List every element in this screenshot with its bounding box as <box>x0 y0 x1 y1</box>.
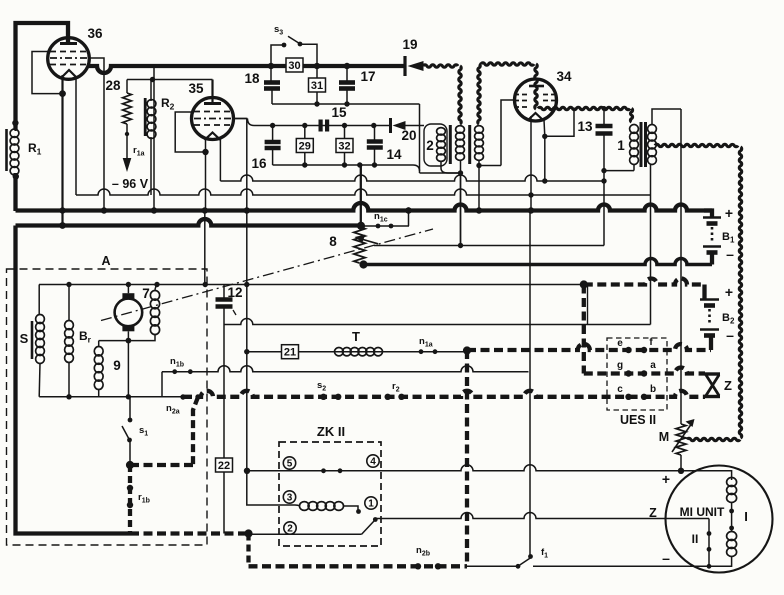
svg-text:–: – <box>662 550 670 566</box>
switch s1 <box>129 397 131 420</box>
contact n1b row <box>162 366 529 372</box>
wire vertical to ZK <box>246 119 248 471</box>
capacitor 16 <box>272 126 274 142</box>
inductor T <box>335 348 344 356</box>
svg-text:MI UNIT: MI UNIT <box>680 505 725 519</box>
svg-text:13: 13 <box>577 119 593 134</box>
wire cap13 to transformer1 primary <box>604 170 634 172</box>
svg-text:18: 18 <box>244 71 260 86</box>
wire vertical long to f1 <box>529 211 531 557</box>
tube 35 <box>211 80 213 104</box>
svg-text:29: 29 <box>299 141 311 153</box>
wire winding C bottom to bus1 <box>478 160 480 211</box>
capacitor 14 <box>374 126 376 141</box>
inductor S <box>38 285 40 316</box>
inductor Br <box>68 285 70 322</box>
wire thick dashed s2-r2 row <box>183 391 705 397</box>
wire tube34 grid left down <box>501 100 515 166</box>
wire thick left drop <box>16 226 131 534</box>
wavy lead M to right edge <box>687 438 740 440</box>
svg-text:12: 12 <box>227 285 242 300</box>
wire 31 with label <box>316 66 318 104</box>
capacitor 17 <box>346 66 348 82</box>
svg-text:4: 4 <box>370 457 376 468</box>
wire 32 with label <box>344 126 346 166</box>
wire tube36 aux drop <box>75 76 77 195</box>
svg-text:31: 31 <box>311 80 323 92</box>
wire tube34 cathode to bus1 <box>530 116 532 211</box>
svg-text:21: 21 <box>284 347 296 359</box>
wire row173 <box>420 172 461 174</box>
svg-text:1: 1 <box>368 499 374 510</box>
dashed enclosure A <box>7 269 208 545</box>
svg-text:+: + <box>662 471 670 487</box>
svg-text:22: 22 <box>218 460 230 472</box>
wire motor top rail <box>39 284 584 286</box>
wire tube36 grid right to bus1 <box>88 58 104 211</box>
wire tube36 cathode drop <box>61 75 63 226</box>
svg-text:35: 35 <box>188 81 204 96</box>
svg-text:Z: Z <box>649 506 657 520</box>
wire row T <box>247 351 467 353</box>
resistor 28 <box>126 80 128 94</box>
wavy lead tube34 out to transformer 1 <box>538 107 630 109</box>
svg-text:2: 2 <box>426 138 434 153</box>
wire vertical 22 <box>223 325 225 534</box>
capacitor 13 <box>602 106 607 111</box>
wire thick B1 return row <box>364 259 713 265</box>
wavy right edge vertical <box>739 147 741 438</box>
svg-text:14: 14 <box>386 147 402 162</box>
wavy lead 19 to transformer <box>423 65 458 67</box>
svg-text:–: – <box>726 327 734 343</box>
wire caps bottom row <box>272 103 420 105</box>
wire caps bottom row 2 <box>273 164 413 166</box>
svg-text:– 96 V: – 96 V <box>112 177 149 191</box>
wire thick dashed drop x467 <box>465 350 469 566</box>
svg-text:2: 2 <box>287 524 293 535</box>
capacitor 15 series <box>319 120 323 132</box>
wire bottom rail <box>39 396 183 398</box>
wire vertical cap row to bus2 <box>360 165 362 226</box>
wire caps top row <box>254 125 391 127</box>
wire minus row <box>467 565 518 567</box>
transformer 2 winding A <box>437 128 446 135</box>
label 30 boxed <box>286 58 303 72</box>
wire tube34 plate tap down <box>545 108 574 137</box>
wire thick bus 1 <box>16 203 713 211</box>
contact n2a <box>180 394 185 399</box>
relay coil 3-1 <box>283 491 295 503</box>
wire winding B drop to row245 <box>460 173 462 246</box>
svg-text:32: 32 <box>338 141 350 153</box>
electrode 20 <box>389 118 392 133</box>
svg-text:16: 16 <box>251 156 267 171</box>
electrode 19 <box>403 56 406 76</box>
svg-text:g: g <box>617 360 623 371</box>
svg-text:b: b <box>650 384 656 395</box>
wire thick dashed n2a drop <box>193 397 198 465</box>
resistor r1b dashed <box>128 465 132 534</box>
wire tube36 grid left <box>32 52 62 94</box>
transformer 2 core 1 <box>449 125 452 164</box>
contact n1c <box>361 225 409 227</box>
wire thick top-left corner <box>16 23 69 130</box>
rheostat M <box>676 424 686 455</box>
wire 29 with label <box>304 126 306 166</box>
svg-text:34: 34 <box>556 69 572 84</box>
wire row 245 wiper <box>374 245 604 247</box>
svg-text:36: 36 <box>87 26 103 41</box>
transformer 2 enclosure <box>424 124 447 166</box>
relay switch 2 <box>284 522 296 534</box>
relay contacts 5-4 <box>283 457 295 469</box>
wire tube35 grid right <box>234 118 248 120</box>
svg-text:+: + <box>725 284 733 300</box>
wire tube35 grid left <box>175 112 205 152</box>
wire thick dashed n1a row to e-f <box>467 344 711 350</box>
node dots on top bus <box>268 63 274 69</box>
arrow r1a <box>126 124 128 132</box>
wire thick top bus <box>88 66 404 73</box>
svg-text:ZK II: ZK II <box>317 424 345 439</box>
resistor R1 <box>5 129 8 171</box>
svg-text:UES II: UES II <box>620 413 656 427</box>
wire thick g-a row <box>584 368 705 374</box>
transformer 1 winding secondary <box>648 125 657 134</box>
svg-text:30: 30 <box>288 60 300 72</box>
svg-text:A: A <box>101 254 110 268</box>
svg-text:M: M <box>659 430 669 444</box>
capacitor 18 <box>270 66 272 82</box>
wire row B <box>76 189 651 195</box>
switch f1 <box>516 564 521 569</box>
svg-text:I: I <box>744 509 748 524</box>
svg-text:S: S <box>20 331 29 346</box>
svg-text:8: 8 <box>329 234 337 249</box>
wavy lead to right edge <box>655 144 738 146</box>
wire plus row <box>247 465 732 471</box>
svg-text:c: c <box>617 384 623 395</box>
battery B1 <box>704 211 712 217</box>
wire thick dashed B2 top <box>584 279 705 285</box>
wavy lead transformer to tube 34 <box>478 64 480 124</box>
wire from top bus to bus1 at x154 <box>153 66 155 211</box>
dashed enclosure UES II <box>607 338 667 410</box>
dashed enclosure ZK II <box>279 442 381 546</box>
svg-text:20: 20 <box>401 128 416 143</box>
arrow to pot 8 <box>360 239 378 244</box>
svg-text:5: 5 <box>287 459 293 470</box>
inductor right of motor <box>155 285 158 292</box>
wire tube34 cathode <box>543 120 546 136</box>
inductor R2 <box>144 98 147 136</box>
wire tube35 aux drop to row A <box>219 139 221 181</box>
contact n1a <box>419 349 424 354</box>
wire winding C to tube34 grid <box>479 165 501 167</box>
meter MI UNIT circle <box>666 466 773 573</box>
svg-text:1: 1 <box>617 138 625 153</box>
svg-text:a: a <box>650 360 656 371</box>
svg-text:28: 28 <box>105 78 121 93</box>
svg-text:–: – <box>726 246 734 262</box>
capacitor 12 <box>223 285 225 299</box>
wire thick dashed bottom row <box>130 531 249 535</box>
potentiometer 8 <box>354 227 365 263</box>
wire thick dashed B2 drop <box>582 285 586 374</box>
transformer 1 core <box>640 122 643 167</box>
wire Z row <box>375 513 709 519</box>
wire row A <box>220 175 604 181</box>
tube 34 <box>515 79 557 121</box>
wire secondary bottom drop <box>650 164 652 325</box>
motor 7 <box>115 299 143 327</box>
svg-text:19: 19 <box>402 37 417 52</box>
svg-text:T: T <box>352 329 360 344</box>
svg-text:+: + <box>725 205 733 221</box>
winding II lead <box>708 519 710 567</box>
transformer 2 winding C <box>475 126 484 134</box>
wire thick bus 2 <box>16 219 362 225</box>
svg-text:e: e <box>617 338 623 349</box>
svg-text:3: 3 <box>287 493 293 504</box>
wire thick dashed minus row <box>249 564 468 568</box>
wire winding A bottom <box>441 161 461 173</box>
wire tube35 cathode drop <box>205 138 207 211</box>
svg-text:II: II <box>692 532 699 546</box>
wire cap row drop x419 <box>419 104 421 173</box>
mechanical link dash-dot <box>101 229 433 321</box>
battery B2 <box>702 285 706 300</box>
wire cap13 down <box>603 134 605 246</box>
svg-text:9: 9 <box>113 358 121 373</box>
thin link row 324 to B2 node <box>587 285 589 325</box>
svg-text:15: 15 <box>331 105 347 120</box>
svg-text:Z: Z <box>724 378 732 393</box>
wire winding B bottom <box>460 160 462 173</box>
transformer 1 winding primary <box>630 125 639 134</box>
transformer 2 winding B <box>456 126 465 134</box>
tube 36 <box>48 38 90 80</box>
transformer 2 core 2 <box>468 125 471 164</box>
wire row 324 <box>224 319 651 325</box>
wire vertical transformer1 to M <box>680 109 682 424</box>
winding I <box>681 471 732 480</box>
arrester Z bowtie <box>705 372 721 375</box>
inductor 9 <box>98 341 100 347</box>
svg-text:7: 7 <box>142 286 150 301</box>
svg-text:17: 17 <box>360 69 375 84</box>
wire secondary top loop <box>652 109 681 125</box>
wire thick dashed drop to minus row <box>246 534 250 567</box>
wire thin drop x461 <box>460 173 462 246</box>
wire 28-R2-35 top <box>127 79 213 81</box>
